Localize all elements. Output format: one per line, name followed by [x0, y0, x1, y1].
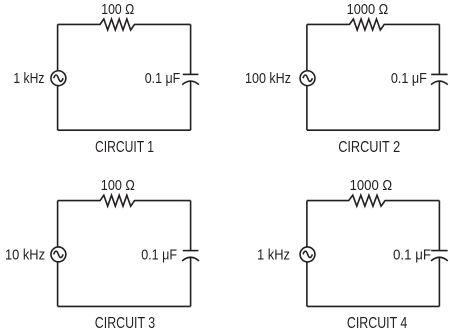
svg-text:CIRCUIT 2: CIRCUIT 2	[338, 139, 400, 156]
svg-text:100 Ω: 100 Ω	[101, 1, 134, 18]
svg-text:1 kHz: 1 kHz	[13, 70, 44, 87]
svg-text:1 kHz: 1 kHz	[257, 246, 290, 263]
svg-text:10 kHz: 10 kHz	[5, 246, 45, 263]
svg-text:0.1 μF: 0.1 μF	[141, 246, 177, 263]
svg-text:0.1 μF: 0.1 μF	[393, 246, 431, 263]
svg-text:CIRCUIT 4: CIRCUIT 4	[347, 315, 408, 332]
svg-text:CIRCUIT 3: CIRCUIT 3	[95, 315, 155, 332]
svg-text:0.1 μF: 0.1 μF	[145, 70, 181, 87]
svg-text:100 kHz: 100 kHz	[245, 70, 291, 87]
svg-text:100 Ω: 100 Ω	[101, 177, 135, 194]
svg-text:1000 Ω: 1000 Ω	[347, 1, 389, 18]
svg-text:0.1 μF: 0.1 μF	[391, 70, 427, 87]
svg-text:1000 Ω: 1000 Ω	[350, 177, 393, 194]
svg-text:CIRCUIT 1: CIRCUIT 1	[95, 139, 154, 156]
